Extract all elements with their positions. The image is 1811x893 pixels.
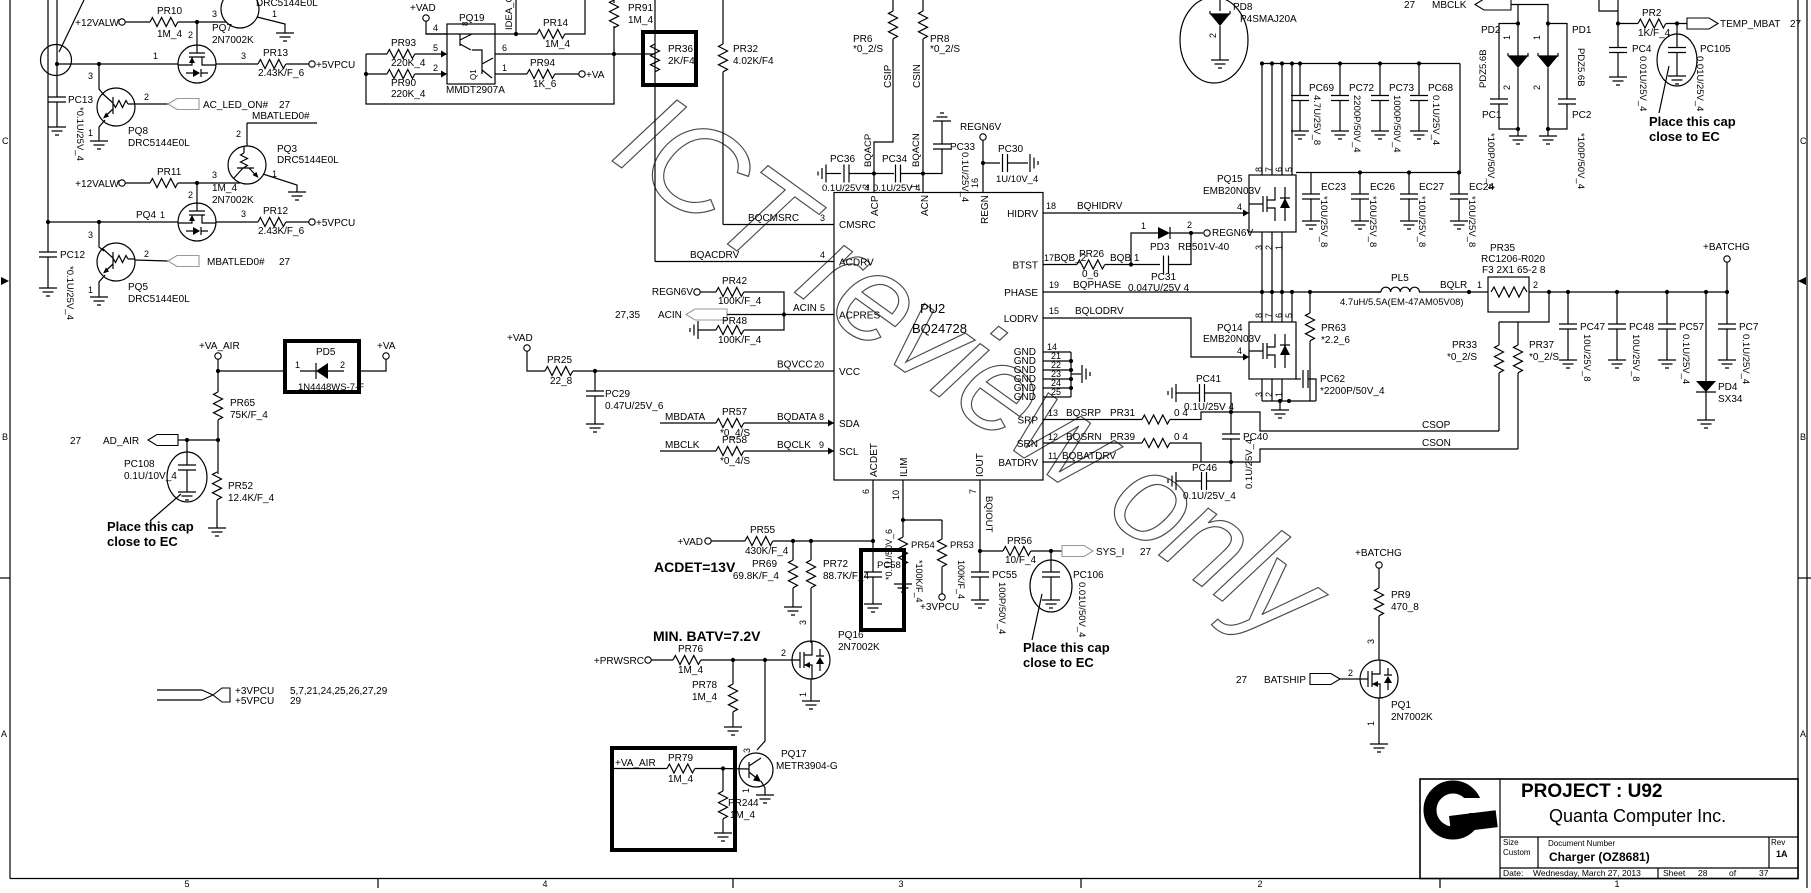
svg-text:1: 1: [1477, 280, 1482, 290]
svg-text:PR55: PR55: [750, 525, 775, 536]
wire PR72 to PQ16: [810, 588, 812, 643]
ground PQ8: [90, 141, 108, 149]
wire +VAD to PR25: [527, 351, 545, 371]
wire PQ15 feed x1282: [1281, 64, 1283, 176]
wire PQ8 collector: [99, 64, 104, 95]
svg-text:7: 7: [1264, 167, 1274, 172]
svg-text:BQSRN: BQSRN: [1066, 432, 1102, 443]
component box PQ19 MMDT2907A: [447, 24, 495, 84]
junction PR72 top: [809, 539, 813, 543]
zone divider tick right y578: [1798, 577, 1811, 579]
wire PR56 to SYS_I: [1031, 550, 1062, 552]
ground PC72: [1331, 131, 1349, 139]
diode PD8 P4SMAJ20A (zener): [1210, 11, 1230, 14]
wire MBATLED0# stub: [247, 122, 317, 124]
svg-text:Document Number: Document Number: [1548, 839, 1615, 848]
svg-text:2.43K/F_6: 2.43K/F_6: [258, 226, 305, 237]
wire PC73 top lead: [1379, 64, 1381, 96]
junction rail x1667: [1665, 290, 1669, 294]
wire PC106 lead: [1050, 551, 1052, 572]
svg-text:BQACN: BQACN: [911, 133, 922, 167]
svg-text:28: 28: [1698, 868, 1708, 878]
svg-text:PR56: PR56: [1007, 536, 1032, 547]
component box PC58: [861, 550, 904, 630]
wire row1 bjt emitter: [257, 17, 285, 33]
capacitor PC108: [178, 465, 196, 470]
wire PQ17 collector: [757, 660, 765, 750]
wire PQ7 to PR13: [216, 63, 258, 65]
svg-text:PL5: PL5: [1391, 273, 1409, 284]
svg-text:BQACP: BQACP: [863, 134, 874, 167]
wire PR90 left: [366, 73, 387, 75]
svg-text:C: C: [2, 136, 9, 146]
svg-text:*10U/25V_8: *10U/25V_8: [1367, 196, 1378, 247]
svg-text:PQ15: PQ15: [1217, 174, 1243, 185]
svg-text:2N7002K: 2N7002K: [1391, 712, 1433, 723]
resistor PR52: [213, 472, 222, 500]
capacitor PC72: [1331, 96, 1349, 101]
terminal +VAD mid: [524, 345, 530, 351]
svg-text:SDA: SDA: [839, 419, 860, 430]
wire PR93 to box: [415, 53, 447, 55]
wire PL5 to PR35: [1419, 291, 1488, 293]
wire PQ17 emitter: [761, 781, 765, 795]
wire phase to PL5: [1310, 291, 1381, 293]
svg-text:2: 2: [1257, 879, 1262, 888]
capacitor EC26: [1351, 194, 1369, 199]
svg-text:430K/F_4: 430K/F_4: [745, 546, 789, 557]
svg-text:MMDT2907A: MMDT2907A: [446, 85, 505, 96]
wire output rail: [1529, 291, 1727, 293]
title block v-line rev cell: [1768, 837, 1770, 868]
resistor PR6: [889, 11, 898, 39]
wire SRN to CSON: [1201, 449, 1518, 462]
wire BQACDRV vertical: [654, 0, 656, 262]
wire BQCMSRC vertical top: [722, 0, 724, 44]
svg-text:9: 9: [819, 440, 824, 450]
svg-text:PR25: PR25: [547, 355, 572, 366]
svg-text:19: 19: [1049, 280, 1059, 290]
bottom zone tick x1440: [1439, 879, 1441, 889]
capacitor PC40: [1222, 434, 1240, 439]
annotation ellipse PC105: [1657, 34, 1697, 86]
svg-text:BQDATA: BQDATA: [777, 412, 817, 423]
capacitor PC1: [1490, 99, 1508, 104]
transistor PQ15 EMB20N03V: [1249, 175, 1296, 232]
resistor PR78: [729, 684, 738, 712]
svg-text:27,35: 27,35: [615, 310, 640, 321]
net tag TEMP_MBAT: [1687, 18, 1718, 29]
svg-text:PU2: PU2: [920, 301, 945, 316]
wire GND bracket to ground: [1071, 373, 1081, 375]
bottom zone tick x1081: [1080, 879, 1082, 889]
svg-text:0.01U/50V_4: 0.01U/50V_4: [1076, 582, 1087, 637]
wire PC57 bottom lead: [1666, 329, 1668, 360]
junction PD1 top: [1546, 21, 1550, 25]
svg-text:+VAD: +VAD: [507, 333, 533, 344]
svg-text:*0.1U/25V_4: *0.1U/25V_4: [64, 266, 75, 320]
svg-text:1M_4: 1M_4: [212, 183, 237, 194]
net tag MBCLK: [1475, 0, 1511, 10]
svg-text:EMB20N03V: EMB20N03V: [1203, 334, 1261, 345]
svg-text:*0_2/S: *0_2/S: [930, 44, 960, 55]
resistor PR13: [258, 60, 286, 69]
svg-text:100K/F_4: 100K/F_4: [718, 296, 762, 307]
junction ACDET node: [871, 539, 875, 543]
svg-text:PR42: PR42: [722, 276, 747, 287]
wire PC41 right: [1205, 393, 1231, 412]
wire BQHIDRV: [1043, 212, 1249, 214]
ground PC30 right: [1030, 154, 1038, 172]
svg-text:+VA_AIR: +VA_AIR: [615, 758, 656, 769]
wire PR65 to AD_AIR node: [217, 420, 219, 440]
svg-text:1A: 1A: [1776, 849, 1788, 859]
svg-text:PR58: PR58: [722, 435, 747, 446]
svg-text:PC48: PC48: [1629, 322, 1654, 333]
svg-text:PD3: PD3: [1150, 242, 1170, 253]
svg-text:1: 1: [88, 285, 93, 295]
wire PQ5 base to tag: [135, 260, 168, 261]
svg-text:A: A: [1, 729, 7, 739]
wire PQ14 source tie: [1262, 400, 1316, 402]
svg-text:2: 2: [144, 92, 149, 102]
wire PQ14 pin6 feed: [1281, 292, 1283, 322]
svg-text:IDEA_G: IDEA_G: [504, 0, 515, 30]
wire to PR2: [1618, 23, 1638, 25]
svg-text:0.1U/25V_4: 0.1U/25V_4: [1430, 95, 1441, 145]
svg-text:PC106: PC106: [1073, 570, 1104, 581]
wire pin6 out: [495, 53, 655, 55]
svg-text:*0_2/S: *0_2/S: [853, 44, 883, 55]
wire +VAD to PR55: [711, 540, 745, 542]
svg-text:REGN6V: REGN6V: [1212, 228, 1253, 239]
svg-text:close to EC: close to EC: [1023, 655, 1094, 670]
svg-text:PQ17: PQ17: [781, 749, 807, 760]
svg-text:PR9: PR9: [1391, 590, 1411, 601]
junction +VA_AIR node: [216, 369, 220, 373]
wire PC46 right: [1207, 462, 1231, 481]
svg-text:0 4: 0 4: [1174, 408, 1188, 419]
svg-text:Sheet: Sheet: [1663, 868, 1686, 878]
svg-text:PC34: PC34: [882, 154, 907, 165]
wire PC72 bottom lead: [1339, 101, 1341, 132]
wire PR91 bottom: [613, 26, 615, 54]
capacitor PC30: [1003, 154, 1008, 172]
svg-text:*2.2_6: *2.2_6: [1321, 335, 1350, 346]
junction GND bracket y379: [1069, 377, 1073, 381]
svg-text:2: 2: [340, 360, 345, 370]
svg-text:PR39: PR39: [1110, 432, 1135, 443]
svg-text:BQ24728: BQ24728: [912, 321, 967, 336]
net tag BATSHIP: [1310, 674, 1340, 685]
ground PC106: [1042, 600, 1060, 608]
wire GND pin stub 5: [1043, 387, 1071, 389]
svg-text:PR57: PR57: [722, 407, 747, 418]
svg-text:4: 4: [542, 879, 547, 888]
capacitor PC62: [1303, 370, 1308, 388]
wire PD3 to REGN6V: [1170, 232, 1203, 234]
junction EC24 bus: [1457, 170, 1461, 174]
svg-text:Rev: Rev: [1771, 838, 1785, 847]
junction bus x1262: [1260, 61, 1264, 65]
svg-text:1: 1: [1614, 879, 1619, 888]
junction BQLR: [1467, 290, 1471, 294]
resistor PR32: [719, 44, 728, 72]
junction IDEA_G: [514, 32, 518, 36]
wire PC48 top lead: [1616, 292, 1618, 324]
title block v-line size cell: [1537, 837, 1539, 868]
junction ACIN: [782, 312, 786, 316]
ground PC69: [1291, 131, 1309, 139]
junction phase x1292: [1290, 290, 1294, 294]
wire PR14 right up: [565, 0, 585, 34]
ground PC12: [39, 288, 57, 296]
svg-text:PC108: PC108: [124, 459, 155, 470]
wire PD1 gnd stem: [1547, 129, 1549, 136]
svg-text:5: 5: [1284, 167, 1294, 172]
svg-text:3: 3: [898, 879, 903, 888]
svg-text:3: 3: [820, 213, 825, 223]
wire +VA_AIR down: [217, 359, 219, 371]
svg-text:100K/F_4: 100K/F_4: [956, 560, 966, 599]
svg-text:2: 2: [188, 190, 193, 200]
resistor PR76: [673, 656, 701, 665]
wire BQSRP: [1043, 419, 1142, 421]
svg-text:PC4: PC4: [1632, 44, 1652, 55]
junction PC105: [1675, 21, 1679, 25]
svg-text:+5VPCU: +5VPCU: [316, 218, 355, 229]
svg-text:PR31: PR31: [1110, 408, 1135, 419]
bottom zone tick x733: [732, 879, 734, 889]
svg-text:4.7U/25V_8: 4.7U/25V_8: [1311, 95, 1322, 145]
svg-text:B: B: [1800, 432, 1806, 442]
svg-text:ACIN: ACIN: [658, 310, 682, 321]
svg-text:2: 2: [144, 249, 149, 259]
svg-text:+VA: +VA: [586, 70, 605, 81]
terminal +VA_AIR: [215, 353, 221, 359]
svg-text:PR2: PR2: [1642, 8, 1662, 19]
svg-text:1000P/50V_4: 1000P/50V_4: [1391, 95, 1402, 153]
wire term to PR10: [125, 21, 150, 23]
resistor PR31: [1142, 415, 1170, 424]
wire PQ4 gate: [196, 183, 198, 203]
wire EC24 top lead: [1458, 173, 1460, 195]
wire PR76 to PQ16 gate: [701, 659, 792, 661]
svg-text:PR54: PR54: [911, 540, 935, 551]
pointer line PC105 note: [1659, 66, 1669, 113]
annotation ellipse PC108: [167, 452, 207, 502]
svg-text:1N4448WS-7-F: 1N4448WS-7-F: [298, 382, 364, 393]
wire IOUT to PR56: [980, 550, 1003, 552]
annotation ellipse PD8: [1180, 0, 1248, 83]
svg-text:close to EC: close to EC: [1649, 129, 1720, 144]
svg-text:METR3904-G: METR3904-G: [776, 761, 838, 772]
junction pin6 PR91: [612, 52, 616, 56]
svg-text:0.1U/25V_4: 0.1U/25V_4: [1183, 491, 1236, 502]
capacitor PC57: [1658, 324, 1676, 329]
svg-text:3: 3: [241, 51, 246, 61]
resistor PR72: [807, 560, 816, 588]
ground PD2: [1509, 136, 1527, 144]
resistor PR58: [716, 447, 744, 456]
wire PR54 top lead: [902, 520, 904, 537]
wire MBCLK left: [660, 450, 716, 452]
resistor PR79: [667, 764, 695, 773]
svg-text:1M_4: 1M_4: [692, 692, 717, 703]
junction GND bracket y388: [1069, 386, 1073, 390]
wire top bus: [1261, 63, 1460, 65]
capacitor PC73: [1371, 96, 1389, 101]
svg-text:BQACDRV: BQACDRV: [690, 250, 740, 261]
title block logo divider: [1499, 779, 1501, 879]
svg-text:PR33: PR33: [1452, 340, 1477, 351]
wire EC bus: [1296, 172, 1460, 174]
svg-text:0.47U/25V_6: 0.47U/25V_6: [605, 401, 664, 412]
wire PC29 bottom lead: [594, 396, 596, 424]
svg-text:PR13: PR13: [263, 48, 288, 59]
wire PR11 to PQ3: [178, 182, 240, 184]
wire PD5 to +VA: [359, 359, 386, 371]
transistor PQ17 METR3904-G: [739, 753, 773, 787]
wire BQACDRV horiz: [655, 261, 834, 263]
ground PR54: [894, 584, 912, 592]
resistor PR36: [651, 44, 660, 72]
svg-text:ACDRV: ACDRV: [839, 258, 874, 269]
wire feedback rail: [366, 54, 614, 104]
ground PC58: [864, 604, 882, 612]
transistor PQ3 DRC5144E0L: [228, 146, 266, 184]
component box PD5: [285, 341, 359, 392]
svg-text:PR14: PR14: [543, 18, 568, 29]
svg-text:B: B: [2, 432, 8, 442]
wire PQ7 gate: [196, 22, 198, 45]
wire diagonal into junction circle: [59, 0, 84, 52]
resistor PR63: [1306, 313, 1315, 341]
junction bus PC69: [1298, 61, 1302, 65]
svg-text:PC36: PC36: [830, 154, 855, 165]
junction rail x1617: [1615, 290, 1619, 294]
ground PD4: [1697, 420, 1715, 428]
svg-text:2: 2: [781, 648, 786, 658]
wire row1 left: [57, 63, 178, 65]
wire PR2 to tag: [1666, 23, 1687, 25]
svg-text:PC29: PC29: [605, 389, 630, 400]
svg-text:+VAD: +VAD: [410, 3, 436, 14]
ground PR52: [208, 528, 226, 536]
wire PQ5 emitter: [99, 275, 105, 297]
wire bus right drop: [1459, 64, 1461, 173]
svg-text:PROJECT : U92: PROJECT : U92: [1521, 781, 1662, 802]
svg-text:75K/F_4: 75K/F_4: [230, 410, 268, 421]
svg-text:+BATCHG: +BATCHG: [1355, 548, 1402, 559]
ground PC36 left: [818, 165, 826, 183]
svg-text:3: 3: [798, 620, 808, 625]
svg-text:1U/10V_4: 1U/10V_4: [996, 174, 1038, 185]
ground PC4: [1609, 77, 1627, 85]
svg-text:5: 5: [433, 43, 438, 53]
ground PC33 (up): [933, 113, 951, 121]
terminal +VAD top: [423, 15, 429, 21]
svg-text:GND: GND: [1014, 392, 1036, 403]
wire output to sense: [1499, 292, 1549, 322]
wire rail x57 top: [56, 0, 58, 97]
resistor PR90: [387, 70, 415, 79]
terminal +VA PR94: [579, 71, 585, 77]
svg-text:PC41: PC41: [1196, 374, 1221, 385]
svg-text:ACN: ACN: [920, 195, 931, 216]
svg-text:10U/25V_8: 10U/25V_8: [1630, 334, 1641, 382]
wire PR58 to SCL: [744, 450, 834, 452]
junction bus x1282: [1280, 61, 1284, 65]
svg-text:Place this cap: Place this cap: [1649, 114, 1736, 129]
svg-text:3: 3: [1366, 639, 1376, 644]
svg-text:PR37: PR37: [1529, 340, 1554, 351]
wire PC68 bottom lead: [1418, 101, 1420, 132]
svg-text:2: 2: [1208, 33, 1218, 38]
svg-text:37: 37: [1759, 868, 1769, 878]
capacitor PC2: [1558, 99, 1576, 104]
junction rail x1568: [1566, 290, 1570, 294]
wire PC31 right: [1169, 233, 1191, 265]
wire PQ4 to PR12: [216, 221, 258, 223]
svg-text:0.01U/25V_4: 0.01U/25V_4: [1637, 56, 1648, 111]
junction PC40 top: [1229, 410, 1233, 414]
resistor PR94: [527, 70, 555, 79]
svg-text:CSIN: CSIN: [912, 64, 923, 88]
junction phase PR63: [1308, 290, 1312, 294]
terminal REGN6V acin: [694, 289, 700, 295]
svg-text:EC26: EC26: [1370, 182, 1395, 193]
svg-text:PQ1: PQ1: [1391, 700, 1411, 711]
wire PC47 bottom lead: [1567, 329, 1569, 360]
junction rail-99 row1: [97, 62, 101, 66]
wire PR91 top: [613, 0, 615, 3]
svg-text:1M_4: 1M_4: [628, 15, 653, 26]
junction PR90 left: [364, 72, 368, 76]
svg-text:PC2: PC2: [1572, 110, 1592, 121]
sheet border left line: [9, 0, 11, 879]
wire ACP stub: [873, 174, 875, 193]
capacitor PC58: [864, 572, 882, 577]
resistor PR93: [387, 50, 415, 59]
wire PQ14 pin3 down: [1261, 379, 1263, 401]
svg-text:2N7002K: 2N7002K: [212, 35, 254, 46]
svg-text:*0_2/S: *0_2/S: [1529, 352, 1559, 363]
svg-text:12.4K/F_4: 12.4K/F_4: [228, 493, 275, 504]
wire PC106 bottom lead: [1050, 577, 1052, 600]
svg-text:27: 27: [70, 436, 82, 447]
wire PC48 bottom lead: [1616, 329, 1618, 360]
IC PU2 BQ24728 body: [834, 193, 1043, 481]
svg-text:close to EC: close to EC: [107, 534, 178, 549]
svg-text:ILIM: ILIM: [899, 458, 910, 477]
svg-text:MBATLED0#: MBATLED0#: [252, 111, 310, 122]
junction rail-57 row1: [55, 62, 59, 66]
svg-text:*0.1U/25V_4: *0.1U/25V_4: [74, 107, 85, 161]
capacitor PC47: [1559, 324, 1577, 329]
resistor PR37: [1514, 345, 1523, 373]
sheet border bottom line: [10, 878, 1798, 880]
wire PQ14 pin5 feed: [1291, 292, 1293, 322]
wire PQ14 pin8 feed: [1261, 292, 1263, 322]
svg-text:PD4: PD4: [1718, 382, 1738, 393]
junction phase x1262: [1260, 290, 1264, 294]
svg-text:4.7uH/5.5A(EM-47AM05V08): 4.7uH/5.5A(EM-47AM05V08): [1340, 297, 1464, 308]
wire PR8 top: [922, 0, 924, 11]
transistor DRC5144E0L row1 (cut at top): [221, 0, 259, 28]
capacitor PC69: [1291, 96, 1309, 101]
resistor PR53: [938, 539, 947, 567]
